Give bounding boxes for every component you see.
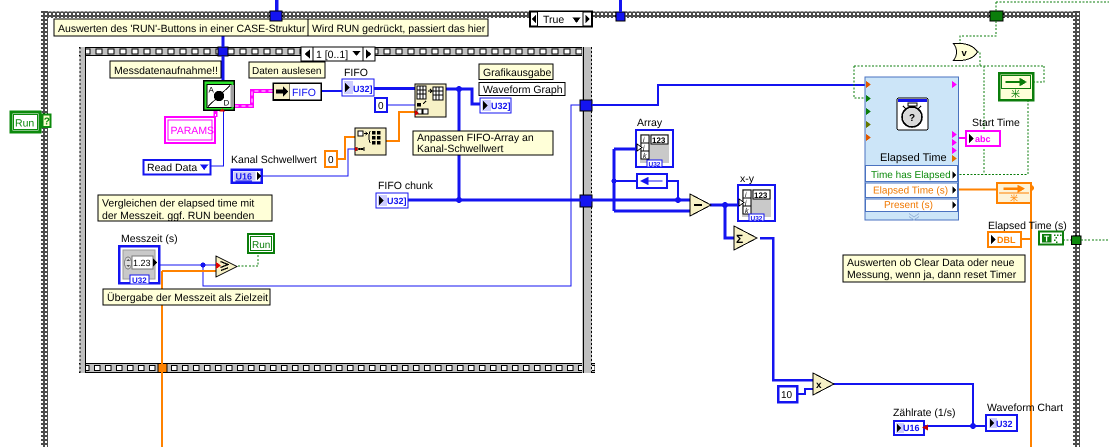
svg-text:Present (s): Present (s) (884, 200, 933, 211)
svg-text:True: True (543, 14, 564, 26)
svg-text:Vergleichen der elapsed time m: Vergleichen der elapsed time mit (102, 198, 254, 210)
svg-text:Read Data: Read Data (147, 162, 197, 174)
svg-text:Waveform Chart: Waveform Chart (987, 402, 1063, 414)
svg-text:Daten auslesen: Daten auslesen (252, 66, 322, 77)
svg-text:j: j (642, 144, 645, 152)
svg-text:U16: U16 (236, 172, 253, 182)
svg-text:U32]: U32] (353, 84, 373, 94)
svg-text:Wird RUN gedrückt, passiert da: Wird RUN gedrückt, passiert das hier (312, 23, 486, 35)
svg-text:U32: U32 (751, 216, 763, 223)
svg-text:der Messzeit. ggf. RUN beenden: der Messzeit. ggf. RUN beenden (102, 210, 254, 222)
svg-text:Elapsed Time (s): Elapsed Time (s) (988, 220, 1067, 232)
svg-text:0: 0 (378, 101, 384, 112)
svg-text:?: ? (44, 117, 50, 128)
svg-text:米: 米 (1010, 194, 1018, 203)
svg-text:j: j (744, 199, 747, 207)
svg-text:123: 123 (754, 191, 768, 200)
svg-text:k: k (745, 207, 749, 215)
svg-text:abc: abc (975, 134, 991, 144)
svg-text:D: D (224, 99, 230, 108)
svg-text:U32: U32 (649, 162, 661, 169)
svg-text:Kanal Schwellwert: Kanal Schwellwert (231, 154, 317, 166)
svg-text:U32: U32 (132, 276, 147, 285)
svg-text:FIFO: FIFO (292, 87, 316, 99)
svg-text:U32: U32 (996, 419, 1013, 429)
svg-text:U16: U16 (903, 423, 920, 433)
svg-text:Start Time: Start Time (972, 117, 1020, 129)
svg-text:x: x (816, 380, 822, 391)
svg-text:x-y: x-y (740, 173, 755, 185)
svg-text:10: 10 (781, 390, 793, 401)
svg-text:Grafikausgabe: Grafikausgabe (483, 67, 551, 79)
svg-text:1.23: 1.23 (133, 258, 151, 268)
svg-text:FIFO chunk: FIFO chunk (378, 180, 434, 192)
svg-text:Messzeit (s): Messzeit (s) (121, 233, 178, 245)
svg-text:Elapsed Time (s): Elapsed Time (s) (873, 186, 948, 197)
svg-text:PARAMS: PARAMS (171, 125, 215, 137)
svg-text:1 [0..1]: 1 [0..1] (316, 49, 348, 61)
svg-text:Messdatenaufnahme!!: Messdatenaufnahme!! (114, 65, 218, 77)
svg-text:123: 123 (652, 136, 666, 145)
svg-text:Elapsed Time: Elapsed Time (880, 152, 947, 164)
svg-text:FIFO: FIFO (344, 67, 368, 79)
svg-text:0: 0 (328, 155, 334, 166)
svg-text:Übergabe der Messzeit als Ziel: Übergabe der Messzeit als Zielzeit (107, 292, 268, 304)
svg-text:A: A (209, 86, 215, 95)
svg-text:Zählrate (1/s): Zählrate (1/s) (893, 407, 955, 419)
svg-text:DBL: DBL (997, 235, 1016, 245)
svg-text:Run: Run (252, 240, 270, 251)
svg-text:米: 米 (1011, 89, 1020, 99)
svg-text:Time has Elapsed: Time has Elapsed (871, 170, 951, 181)
svg-text:Auswerten des 'RUN'-Buttons in: Auswerten des 'RUN'-Buttons in einer CAS… (58, 23, 306, 35)
svg-text:Auswerten ob Clear Data oder n: Auswerten ob Clear Data oder neue (847, 257, 1015, 269)
svg-text:Messung, wenn ja, dann reset T: Messung, wenn ja, dann reset Timer (847, 269, 1017, 281)
svg-text:?: ? (909, 113, 915, 124)
svg-text:U32]: U32] (387, 196, 407, 206)
svg-text:v: v (962, 48, 968, 59)
svg-text:Σ: Σ (736, 232, 743, 246)
svg-text:Waveform Graph: Waveform Graph (483, 84, 563, 96)
svg-text:Kanal-Schwellwert: Kanal-Schwellwert (417, 143, 503, 155)
svg-text:Array: Array (637, 117, 663, 129)
svg-text:Run: Run (15, 118, 34, 130)
svg-text:T: T (1044, 234, 1050, 244)
svg-text:U32]: U32] (491, 101, 511, 111)
svg-text:k: k (643, 152, 647, 160)
